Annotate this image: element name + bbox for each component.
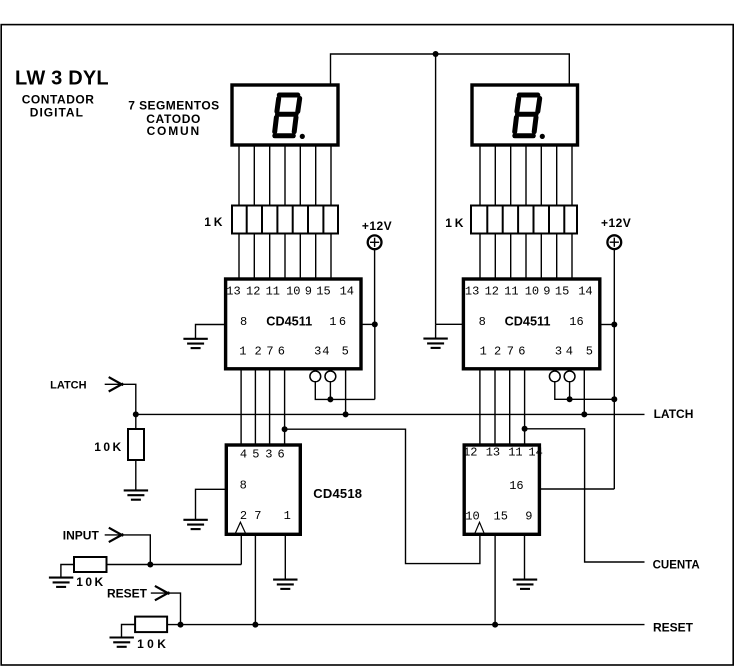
U1 top pin numbers 13 12 11 10 9 15 14 — [226, 284, 354, 298]
display DS2 7-segment — [472, 85, 578, 145]
svg-text:LATCH: LATCH — [654, 407, 694, 421]
svg-text:10K: 10K — [137, 637, 169, 651]
wire U4 Q3 to CUENTA — [525, 429, 645, 562]
svg-text:12: 12 — [246, 284, 260, 298]
resistor network RN2 1K — [471, 206, 577, 234]
op-amp U2 CD4511 decoder box — [463, 279, 599, 369]
svg-text:9: 9 — [305, 284, 312, 298]
wire U1 pin 5 to LATCH line — [345, 370, 347, 414]
wire U3 pin 7 to RESET line — [254, 535, 256, 625]
op-amp U1 CD4511 decoder box — [226, 279, 361, 369]
junction U3 pin 7 on RESET line — [252, 622, 258, 628]
digit 8 with dp of DS2 — [515, 95, 540, 136]
svg-text:14: 14 — [528, 446, 542, 460]
svg-text:5: 5 — [252, 448, 259, 462]
svg-text:15: 15 — [494, 509, 508, 523]
junction pins 3-4 wire on +12V rail 2 — [611, 396, 617, 402]
junction +12V rail 2 at pin 16 — [611, 322, 617, 328]
wire +12V rail 1 upper — [374, 249, 376, 324]
svg-text:COMUN: COMUN — [147, 124, 201, 138]
ground for R1 — [124, 490, 148, 499]
wire U1 pin 16 to +12V rail — [361, 323, 375, 325]
U2 pin 8 — [479, 315, 486, 329]
svg-text:15: 15 — [316, 284, 330, 298]
svg-text:12: 12 — [463, 446, 477, 460]
wire U2 pin 4 stub — [569, 382, 571, 400]
ground for R3 — [110, 638, 134, 647]
U4 bottom pin numbers 10 15 9 — [465, 509, 532, 523]
wire ground rail down to U2 pin 8 — [435, 54, 437, 324]
wire U3 Q3 to U4 pin 10 clock — [285, 429, 480, 563]
wire INPUT arrow down — [105, 535, 151, 565]
wire U2 pin 5 to LATCH line — [583, 370, 585, 414]
svg-text:INPUT: INPUT — [63, 529, 100, 543]
U2 top pin numbers 13 12 11 10 9 15 14 — [465, 284, 593, 298]
wire to U2 pin 8 — [436, 323, 464, 325]
svg-text:CONTADOR: CONTADOR — [22, 93, 95, 107]
wires U1 pins 1 2 7 to U3 pins 4 5 3 — [241, 370, 270, 445]
svg-text:13: 13 — [486, 446, 500, 460]
junction U4 Q3 node — [522, 426, 528, 432]
clock triangle U3 pin 2 — [235, 522, 245, 533]
pin circle U2 pin 4 — [564, 371, 575, 382]
wire +12V rail 2 upper — [613, 249, 615, 324]
pin circle U1 pin 3 — [310, 371, 321, 382]
ground for U3 pin 8 — [183, 520, 207, 529]
wires RN2 to U2 inputs — [480, 234, 572, 280]
svg-text:1K: 1K — [445, 216, 466, 230]
svg-text:+12V: +12V — [362, 219, 392, 233]
wire U4 pin 15 to RESET line — [494, 535, 496, 625]
junction +12V rail 1 at pin 16 — [372, 321, 378, 327]
clock triangle U4 pin 10 — [475, 522, 484, 533]
display DS1 7-segment — [232, 85, 338, 145]
junction U2 pin 5 on LATCH line — [581, 411, 587, 417]
svg-text:10K: 10K — [94, 440, 123, 454]
wire U2 pin 6 to U4 pin 14 — [524, 370, 526, 445]
svg-text:13: 13 — [226, 284, 240, 298]
wires U2 pins 1 2 7 to U4 pins 12 13 11 — [480, 370, 510, 445]
junction U3 Q3 node — [282, 426, 288, 432]
wire +12V rail to U4 pin 16 — [540, 488, 614, 490]
svg-text:5: 5 — [586, 344, 593, 358]
connector arrow RESET — [155, 586, 170, 600]
wire RESET line — [167, 624, 644, 626]
wire +12V rail 2 lower — [613, 325, 615, 490]
svg-text:1: 1 — [480, 344, 487, 358]
svg-text:1: 1 — [239, 344, 246, 358]
svg-text:2: 2 — [255, 344, 262, 358]
svg-text:7: 7 — [266, 344, 273, 358]
wires DS2 segments to RN2 — [480, 145, 572, 206]
wire LATCH arrow to LATCH line — [105, 384, 136, 414]
ground for U2 pin 8 / display commons — [423, 339, 447, 348]
wire RESET arrow down — [151, 593, 181, 625]
svg-text:12: 12 — [485, 284, 499, 298]
svg-text:11: 11 — [504, 284, 518, 298]
U4 top pin numbers 12 13 11 14 — [463, 446, 543, 460]
svg-text:7: 7 — [507, 344, 514, 358]
svg-text:5: 5 — [342, 344, 349, 358]
svg-text:2: 2 — [240, 509, 247, 523]
digit 8 with dp of DS1 — [275, 95, 300, 136]
svg-text:CUENTA: CUENTA — [653, 560, 700, 572]
svg-text:9: 9 — [525, 509, 532, 523]
svg-text:8: 8 — [240, 478, 247, 492]
svg-text:8: 8 — [240, 315, 247, 329]
svg-text:3: 3 — [555, 344, 562, 358]
U3 pin 8 — [240, 478, 247, 492]
svg-text:CD4518: CD4518 — [313, 486, 362, 501]
svg-text:6: 6 — [518, 344, 525, 358]
pin circle U2 pin 3 — [549, 371, 560, 382]
svg-text:6: 6 — [278, 448, 285, 462]
wires RN1 to U1 inputs — [239, 234, 331, 280]
wire INPUT line to U3 pin 2 — [107, 564, 242, 566]
svg-text:LATCH: LATCH — [50, 379, 87, 391]
svg-text:+12V: +12V — [601, 216, 631, 230]
svg-text:7: 7 — [254, 509, 261, 523]
junction RESET at R3 — [178, 622, 184, 628]
svg-text:16: 16 — [509, 479, 523, 493]
U3 bottom pin numbers 2 7 1 — [240, 509, 291, 523]
U3 top pin numbers 4 5 3 6 — [240, 448, 285, 462]
connector arrow LATCH — [109, 377, 124, 391]
svg-text:14: 14 — [578, 284, 592, 298]
svg-text:11: 11 — [266, 284, 280, 298]
resistor R1 10K — [128, 429, 144, 460]
wire +12V rail 1 lower — [374, 324, 376, 399]
power +12V supply 1 — [362, 219, 392, 249]
connector arrow INPUT — [109, 528, 124, 542]
transistor U3 CD4518 counter box — [226, 445, 300, 534]
U1 bottom pin numbers 1 2 7 6 3 4 5 — [239, 344, 349, 358]
svg-text:1K: 1K — [204, 215, 225, 229]
ground for U3 pin 1 — [273, 580, 297, 589]
svg-text:2: 2 — [494, 344, 501, 358]
svg-text:4: 4 — [566, 344, 573, 358]
wire ground stem — [435, 324, 437, 338]
wire common-cathode bus from DS1 top to DS2 top — [331, 54, 570, 85]
svg-text:LW 3 DYL: LW 3 DYL — [15, 67, 109, 89]
svg-text:CD4511: CD4511 — [266, 315, 312, 329]
wire to R1 top — [135, 414, 137, 429]
wire U3 pin 1 to ground — [284, 535, 286, 579]
wire U4 pin 9 to ground — [524, 535, 526, 579]
svg-text:RESET: RESET — [107, 587, 148, 601]
ground for U4 pin 9 — [513, 580, 537, 589]
power +12V supply 2 — [601, 216, 631, 249]
svg-text:RESET: RESET — [653, 621, 694, 635]
svg-text:3: 3 — [265, 448, 272, 462]
wire R1 to ground — [135, 460, 137, 490]
svg-text:9: 9 — [543, 284, 550, 298]
svg-text:4: 4 — [322, 344, 329, 358]
wire U2 pin 16 to +12V rail — [600, 324, 614, 326]
wire U1 pin 4 stub — [329, 382, 331, 400]
svg-text:3: 3 — [314, 344, 321, 358]
svg-text:DIGITAL: DIGITAL — [30, 106, 84, 120]
junction top bus to ground rail — [433, 51, 439, 57]
wire U1 pin 6 to U3 pin 6 — [284, 370, 286, 445]
U2 bottom pin numbers 1 2 7 6 3 4 5 — [480, 344, 593, 358]
svg-text:10: 10 — [286, 284, 300, 298]
junction pins 3-4 — [327, 396, 333, 402]
resistor R3 10K — [135, 617, 167, 633]
svg-text:1: 1 — [284, 509, 291, 523]
svg-text:11: 11 — [508, 446, 522, 460]
svg-text:10: 10 — [525, 284, 539, 298]
wire up to U3 pin 2 clock — [240, 535, 242, 565]
wires DS1 segments to RN1 — [239, 145, 331, 206]
svg-text:1: 1 — [569, 315, 576, 329]
svg-text:10K: 10K — [76, 575, 105, 589]
wire LATCH line — [136, 413, 645, 415]
resistor network RN1 1K — [232, 206, 338, 234]
ground for U1 pin 8 — [183, 339, 207, 348]
svg-text:10: 10 — [465, 509, 479, 523]
svg-text:6: 6 — [577, 315, 584, 329]
wire U1 pin 8 to ground — [196, 325, 226, 339]
U1 pin 8 — [240, 315, 247, 329]
wire R3 to ground — [122, 625, 136, 638]
junction U4 pin 15 on RESET line — [492, 622, 498, 628]
junction INPUT at R2 — [147, 562, 153, 568]
junction LATCH at R1 — [133, 411, 139, 417]
svg-text:14: 14 — [340, 284, 354, 298]
U4 pin 16 — [509, 479, 523, 493]
wire U3 pin 8 to ground — [196, 489, 227, 519]
svg-text:7 SEGMENTOS: 7 SEGMENTOS — [128, 99, 219, 113]
svg-text:4: 4 — [240, 448, 247, 462]
svg-text:15: 15 — [555, 284, 569, 298]
U1 pin 16 — [329, 315, 346, 329]
svg-text:1: 1 — [329, 315, 336, 329]
junction U2 pins 3-4 — [567, 396, 573, 402]
wire U2 pins 3 4 to +12V rail — [555, 382, 615, 400]
U2 pin 16 — [569, 315, 584, 329]
pin circle U1 pin 4 — [325, 371, 336, 382]
svg-text:CD4511: CD4511 — [505, 315, 551, 329]
svg-text:8: 8 — [479, 315, 486, 329]
svg-text:13: 13 — [465, 284, 479, 298]
junction U1 pin 5 on LATCH line — [343, 411, 349, 417]
ground for R2 — [49, 578, 73, 587]
wire R2 to ground — [61, 565, 74, 578]
svg-text:6: 6 — [339, 315, 346, 329]
resistor R2 10K — [74, 557, 107, 572]
wire U1 pins 3 4 to +12V rail — [315, 382, 375, 400]
svg-text:6: 6 — [278, 344, 285, 358]
transistor U4 CD4518 counter box — [464, 445, 539, 534]
